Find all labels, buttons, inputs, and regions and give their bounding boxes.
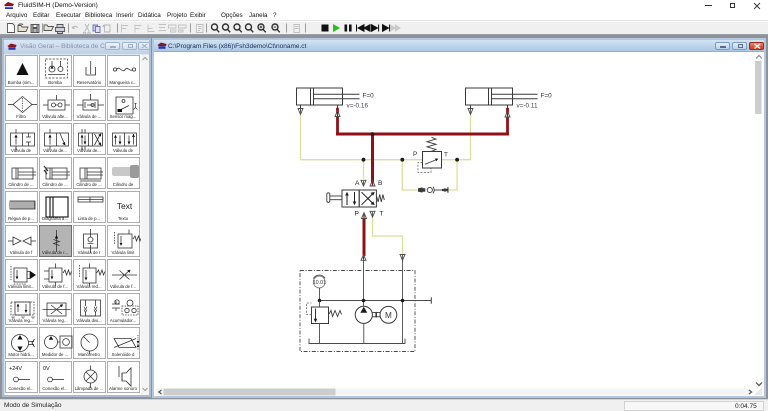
menu bar	[0, 10, 768, 21]
directional valve left position arrows	[347, 192, 355, 205]
relief valve V2 body	[422, 152, 441, 169]
pump	[355, 306, 372, 323]
connection arrow: cylinder 1 piston port (up)	[335, 111, 340, 117]
directional valve 4/2 body right position	[359, 190, 376, 207]
junction dot: pump node	[361, 299, 365, 303]
wire: tank line left cylinder left port	[300, 115, 363, 160]
wire: red riser to right cylinder piston port	[506, 108, 509, 136]
wire: tank line to relief valve P	[363, 159, 422, 161]
relief valve V2 spring	[427, 137, 436, 151]
power unit enclosure (dash-dot)	[300, 271, 415, 352]
svg-text:M: M	[385, 311, 392, 320]
drain line across power unit	[319, 300, 431, 302]
electric motor M	[380, 306, 397, 323]
wire: relief valve T to right cylinder	[441, 115, 470, 160]
svg-text:T: T	[444, 152, 448, 159]
wire: check valve bypass right leg	[448, 160, 457, 190]
svg-text:P: P	[413, 151, 417, 158]
gauge stem	[318, 288, 320, 301]
application title bar	[0, 0, 768, 10]
svg-text:F=0: F=0	[362, 93, 374, 100]
cylinder 2 (right, double-acting)	[465, 88, 537, 109]
svg-text:v=-0.11: v=-0.11	[516, 103, 537, 110]
junction dot: tank line / port A node	[361, 158, 365, 162]
power unit tank bottom	[309, 339, 405, 344]
connection arrow: valve port B (up)	[370, 180, 375, 186]
directional valve return spring	[376, 195, 384, 203]
svg-text:B: B	[378, 180, 383, 187]
wire: pressure line P to valve (red)	[362, 217, 365, 256]
connection arrow: valve port A (down)	[361, 180, 366, 186]
junction dot: red manifold node	[370, 132, 374, 136]
junction dot: bypass right node	[455, 158, 459, 162]
status bar	[0, 399, 768, 411]
svg-text:10.01: 10.01	[312, 280, 326, 286]
svg-text:A: A	[355, 180, 360, 187]
relief valve V2 pilot line	[418, 163, 431, 173]
wire: valve port T to power unit tank connection	[372, 216, 402, 255]
junction dot: bypass left node	[400, 158, 404, 162]
connection arrow: power unit pressure port (up)	[361, 255, 366, 261]
directional valve 4/2 body left position	[342, 190, 359, 207]
toolbar	[0, 22, 768, 35]
pressure gauge	[313, 276, 325, 288]
power unit relief valve spring	[329, 311, 342, 317]
cylinder 1 (left, double-acting)	[296, 88, 359, 109]
connection arrow: cylinder 2 piston port (up)	[505, 111, 510, 117]
circuit window	[152, 38, 766, 398]
svg-text:T: T	[379, 211, 383, 218]
svg-text:Text: Text	[116, 201, 132, 211]
wire: branch to valve port A	[362, 160, 364, 179]
junction dot: tank return node	[400, 299, 404, 303]
power unit relief valve arrow	[314, 309, 316, 320]
connection arrow: valve port T (down)	[370, 211, 375, 217]
junction dot: gauge node	[317, 299, 321, 303]
svg-text:+24V: +24V	[9, 366, 22, 372]
directional valve lever actuator	[330, 196, 342, 200]
power unit internal tank stub	[401, 259, 403, 344]
svg-text:F=0: F=0	[540, 93, 552, 100]
connection arrow: cylinder 1 rod port (down)	[298, 109, 303, 115]
vertical scrollbar thumb	[755, 61, 762, 114]
wire: red riser to left cylinder piston port	[336, 108, 339, 136]
svg-text:P: P	[354, 211, 359, 218]
power unit internal pressure stub	[362, 260, 364, 306]
connection arrow: valve port P (up)	[361, 213, 366, 219]
drain line terminator	[430, 297, 432, 303]
check valve (bypass)	[418, 187, 449, 194]
svg-text:v=-0.16: v=-0.16	[346, 103, 368, 110]
power unit relief valve pilot line	[306, 303, 311, 315]
wire: pressure line valve B to cylinders (red)	[337, 134, 372, 182]
power unit relief valve body	[311, 307, 328, 324]
svg-text:0V: 0V	[43, 366, 50, 372]
connection arrow: power unit tank port (down)	[400, 255, 405, 261]
relief valve to tank stub	[318, 324, 320, 344]
pump/motor shaft coupling	[372, 312, 380, 318]
horizontal scrollbar thumb	[163, 389, 335, 396]
connection arrow: cylinder 2 rod port (down)	[468, 109, 473, 115]
library window	[2, 38, 151, 398]
directional valve right position crossed arrows	[361, 192, 373, 205]
relief valve V2 flow arrow	[425, 160, 436, 164]
wire: check valve bypass left leg	[402, 160, 417, 190]
